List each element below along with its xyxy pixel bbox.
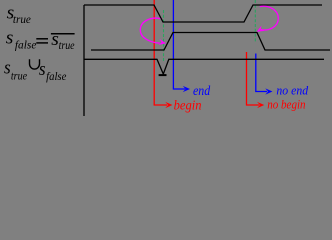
- waveform s_true: [84, 5, 322, 22]
- magenta arrowhead 2: [257, 26, 265, 32]
- blue arrowhead 2: [265, 88, 272, 94]
- svg-text:false: false: [46, 69, 67, 83]
- equals sign: [36, 38, 48, 40]
- red arrowhead 2: [257, 102, 264, 108]
- green dashed line 2 (right event): [254, 0, 256, 42]
- magenta arc 1: [140, 18, 160, 43]
- svg-text:true: true: [13, 12, 32, 26]
- red line 2 (no begin): [247, 52, 260, 105]
- union cup symbol: [30, 59, 40, 69]
- axis vertical line: [83, 5, 85, 116]
- svg-text:end: end: [193, 83, 210, 98]
- svg-text:true: true: [11, 69, 28, 83]
- blue arrowhead 1: [183, 86, 190, 92]
- svg-text:true: true: [59, 38, 76, 52]
- overline bar: [51, 33, 75, 35]
- green dashed line 1 (left event): [163, 10, 165, 61]
- svg-text:false: false: [15, 38, 37, 52]
- svg-text:no end: no end: [276, 84, 308, 98]
- svg-text:s: s: [39, 59, 46, 80]
- union dip bottom bar: [159, 74, 167, 76]
- blue line 1 (end): [173, 0, 185, 89]
- magenta arc 2: [260, 6, 279, 30]
- red line 1 (begin): [154, 0, 167, 105]
- label s_true: [7, 3, 32, 26]
- svg-text:s: s: [6, 28, 14, 49]
- red arrowhead 1: [165, 102, 172, 108]
- svg-text:no begin: no begin: [267, 96, 305, 111]
- label s_true union s_false: [4, 58, 28, 83]
- waveform union: [84, 59, 324, 74]
- waveform s_false: [91, 33, 330, 51]
- magenta arrowhead 1: [158, 39, 166, 45]
- label s_false = overline s_true: [6, 28, 37, 52]
- svg-text:begin: begin: [174, 98, 202, 113]
- blue line 2 (no end): [256, 54, 267, 92]
- svg-text:s: s: [4, 58, 11, 79]
